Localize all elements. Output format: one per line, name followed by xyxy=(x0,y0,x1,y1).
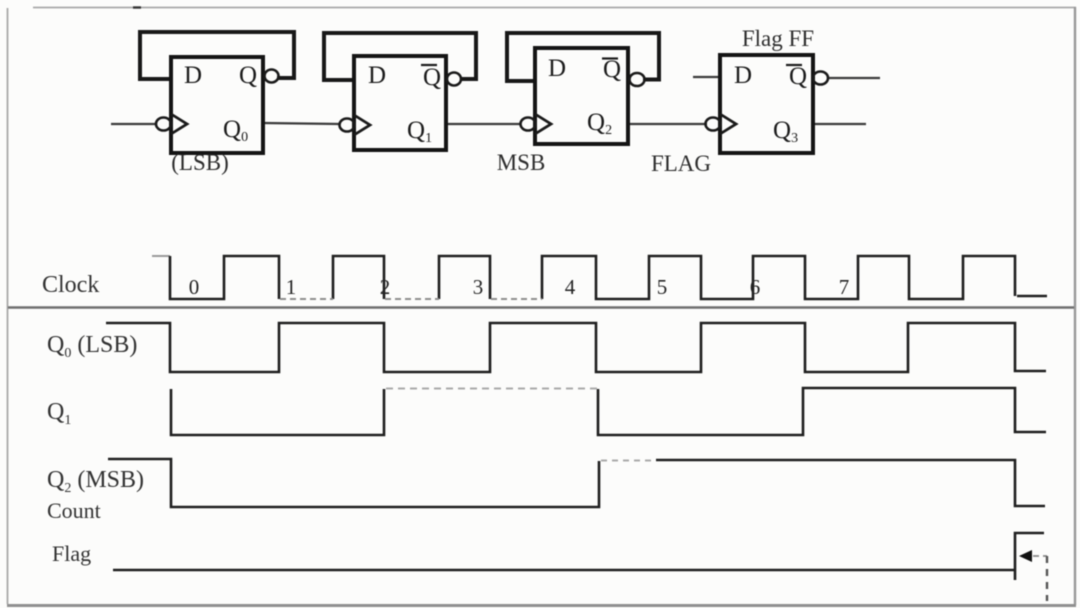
svg-text:Count: Count xyxy=(47,498,101,523)
svg-text:4: 4 xyxy=(565,275,576,299)
svg-text:3: 3 xyxy=(473,275,484,299)
svg-text:Flag FF: Flag FF xyxy=(742,26,814,51)
svg-text:D: D xyxy=(368,62,386,89)
svg-text:0: 0 xyxy=(189,275,200,299)
svg-text:D: D xyxy=(548,55,566,82)
svg-text:2: 2 xyxy=(380,275,391,299)
svg-text:MSB: MSB xyxy=(497,150,546,175)
svg-text:Q2 (MSB): Q2 (MSB) xyxy=(47,467,144,496)
svg-text:FLAG: FLAG xyxy=(651,151,711,176)
svg-text:Q0 (LSB): Q0 (LSB) xyxy=(47,332,137,361)
svg-text:5: 5 xyxy=(657,275,668,299)
svg-text:D: D xyxy=(184,62,202,89)
svg-text:Q: Q xyxy=(789,63,807,90)
svg-text:(LSB): (LSB) xyxy=(171,150,229,175)
svg-text:Q: Q xyxy=(423,64,441,91)
svg-text:6: 6 xyxy=(750,275,761,299)
svg-text:1: 1 xyxy=(286,275,297,299)
svg-text:D: D xyxy=(734,62,752,89)
svg-text:Flag: Flag xyxy=(52,541,91,566)
svg-text:Q: Q xyxy=(239,62,257,89)
svg-text:Q: Q xyxy=(603,56,621,83)
svg-text:Clock: Clock xyxy=(42,272,99,298)
svg-text:7: 7 xyxy=(839,275,850,299)
